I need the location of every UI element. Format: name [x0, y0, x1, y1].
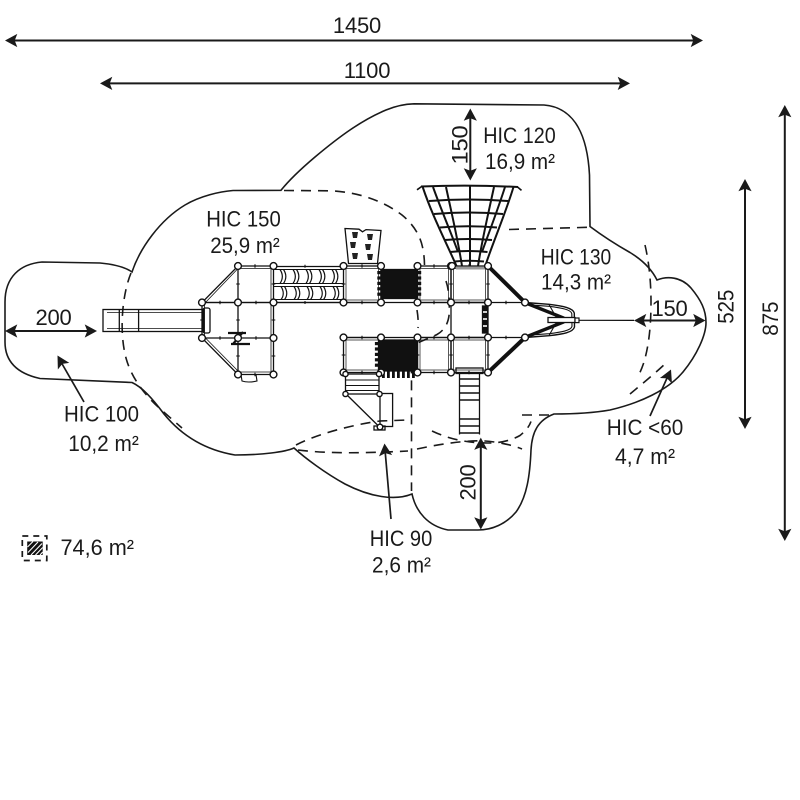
svg-text:150: 150	[651, 296, 687, 321]
svg-text:150: 150	[448, 126, 473, 165]
svg-text:10,2 m²: 10,2 m²	[68, 431, 139, 456]
svg-text:525: 525	[714, 290, 739, 324]
svg-text:875: 875	[758, 302, 783, 336]
svg-text:200: 200	[35, 305, 71, 330]
svg-text:HIC 130: HIC 130	[541, 245, 612, 270]
svg-text:HIC 90: HIC 90	[370, 526, 433, 551]
svg-text:2,6 m²: 2,6 m²	[372, 553, 431, 578]
svg-text:14,3 m²: 14,3 m²	[541, 270, 611, 295]
svg-text:HIC 100: HIC 100	[64, 402, 139, 427]
svg-text:16,9 m²: 16,9 m²	[485, 149, 555, 174]
svg-text:25,9 m²: 25,9 m²	[210, 233, 280, 258]
svg-text:1100: 1100	[344, 58, 391, 83]
svg-text:HIC 150: HIC 150	[206, 207, 281, 232]
svg-text:HIC <60: HIC <60	[607, 415, 684, 440]
svg-text:HIC 120: HIC 120	[483, 123, 556, 148]
svg-text:4,7 m²: 4,7 m²	[615, 444, 675, 469]
svg-text:74,6 m²: 74,6 m²	[61, 535, 135, 560]
svg-text:1450: 1450	[333, 13, 381, 38]
svg-text:200: 200	[456, 465, 481, 501]
